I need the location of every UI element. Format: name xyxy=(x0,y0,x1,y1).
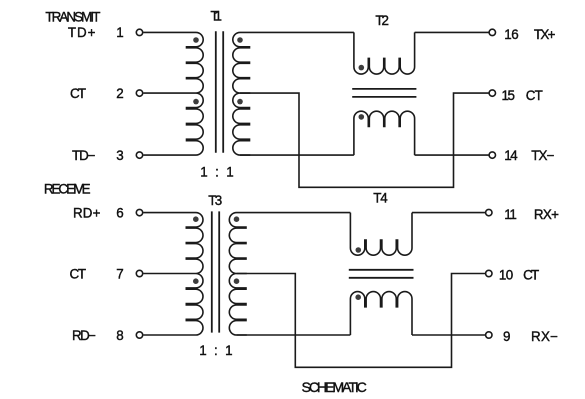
svg-text:7: 7 xyxy=(116,266,123,281)
T1 primary polarity dot (top) xyxy=(193,37,199,43)
pin 15 terminal circle xyxy=(489,90,495,96)
T1 secondary polarity dot (top) xyxy=(237,37,243,43)
pin 10 terminal circle xyxy=(486,270,492,276)
pin 8 terminal circle xyxy=(136,332,142,338)
transformer T2 top winding (common-mode choke upper) xyxy=(354,32,415,74)
transformer T2 bottom winding (common-mode choke lower) xyxy=(354,111,415,155)
T1 secondary polarity dot (center section) xyxy=(237,99,243,105)
svg-text:T2: T2 xyxy=(375,13,389,28)
svg-text:TRANSMIT: TRANSMIT xyxy=(45,9,100,24)
wire T1 secondary bottom rail to T2 bottom winding xyxy=(240,154,354,156)
transformer T1 core lines xyxy=(216,31,223,153)
pin 14 terminal circle xyxy=(489,152,495,158)
transformer T3 primary winding (wires from pins 6,7,8) xyxy=(143,213,203,335)
pin 9 terminal circle xyxy=(486,332,492,338)
pin 1 terminal circle xyxy=(136,29,142,35)
pin 16 terminal circle xyxy=(489,29,495,35)
wire T3 secondary top rail to T4 top winding xyxy=(237,212,351,214)
wire transmit center tap: T1 secondary CT down-around to pin 15 xyxy=(240,93,489,187)
svg-text:1 : 1: 1 : 1 xyxy=(200,165,233,180)
svg-text:RD−: RD− xyxy=(72,328,96,343)
svg-text:CT: CT xyxy=(70,266,87,281)
svg-text:TX−: TX− xyxy=(531,148,554,163)
svg-text:RX−: RX− xyxy=(531,329,558,344)
svg-text:T1: T1 xyxy=(211,9,223,24)
T4 top winding polarity dot xyxy=(356,247,362,253)
pin 6 terminal circle xyxy=(136,209,142,215)
svg-text:CT: CT xyxy=(70,86,86,101)
svg-text:1: 1 xyxy=(116,25,123,40)
transformer T4 top winding (common-mode choke upper) xyxy=(350,213,412,256)
pin 2 terminal circle xyxy=(136,90,142,96)
svg-text:RD+: RD+ xyxy=(73,205,101,220)
wire T4 bottom winding to pin 9 xyxy=(412,334,486,336)
transformer T1 primary winding (wires from pins 1,2,3) xyxy=(143,32,203,155)
wire T3 secondary bottom rail to T4 bottom winding xyxy=(237,334,351,336)
svg-text:TD+: TD+ xyxy=(68,25,96,40)
T1 primary polarity dot (pin2 section) xyxy=(193,99,199,105)
T3 primary polarity dot (top) xyxy=(193,216,199,222)
svg-text:11: 11 xyxy=(504,207,517,222)
T3 secondary polarity dot (top) xyxy=(234,216,240,222)
transformer T4 bottom winding (common-mode choke lower) xyxy=(350,292,412,335)
svg-text:6: 6 xyxy=(116,205,123,220)
svg-text:SCHEMATIC: SCHEMATIC xyxy=(302,380,367,396)
transformer T3 secondary winding xyxy=(229,213,246,335)
wire receive center tap: T3 secondary CT down-around to pin 10 xyxy=(237,274,486,368)
T4 bottom winding polarity dot xyxy=(355,294,361,300)
T2 core lines xyxy=(352,89,416,97)
svg-text:3: 3 xyxy=(116,148,123,163)
svg-text:15: 15 xyxy=(502,88,516,103)
pin 3 terminal circle xyxy=(136,152,142,158)
svg-text:TX+: TX+ xyxy=(534,27,556,42)
wire T4 top winding to pin 11 xyxy=(412,212,486,214)
svg-text:16: 16 xyxy=(504,27,519,42)
svg-text:T3: T3 xyxy=(208,193,222,208)
T3 secondary polarity dot (center section) xyxy=(234,278,240,284)
svg-text:10: 10 xyxy=(499,267,513,282)
svg-text:CT: CT xyxy=(526,88,543,103)
svg-text:1 : 1: 1 : 1 xyxy=(199,343,232,358)
svg-text:RECEIVE: RECEIVE xyxy=(44,182,91,197)
T2 bottom winding polarity dot xyxy=(359,114,365,120)
svg-text:14: 14 xyxy=(504,148,518,163)
wire T2 bottom winding to pin 14 xyxy=(415,154,490,156)
svg-text:TD−: TD− xyxy=(72,148,96,163)
svg-text:8: 8 xyxy=(116,328,123,343)
svg-text:RX+: RX+ xyxy=(534,207,559,222)
transformer T1 secondary winding xyxy=(233,32,250,155)
pin 7 terminal circle xyxy=(136,270,142,276)
svg-text:CT: CT xyxy=(523,267,539,282)
pin 11 terminal circle xyxy=(486,209,492,215)
wire T1 secondary top rail to T2 top winding xyxy=(240,31,354,33)
T3 primary polarity dot (pin7 section) xyxy=(193,278,199,284)
transformer T3 core lines xyxy=(212,211,219,332)
svg-text:9: 9 xyxy=(503,329,510,344)
T2 top winding polarity dot xyxy=(359,65,365,71)
wire T2 top winding to pin 16 xyxy=(415,31,490,33)
svg-text:T4: T4 xyxy=(373,191,388,206)
T4 core lines xyxy=(349,270,414,278)
svg-text:2: 2 xyxy=(116,86,123,101)
